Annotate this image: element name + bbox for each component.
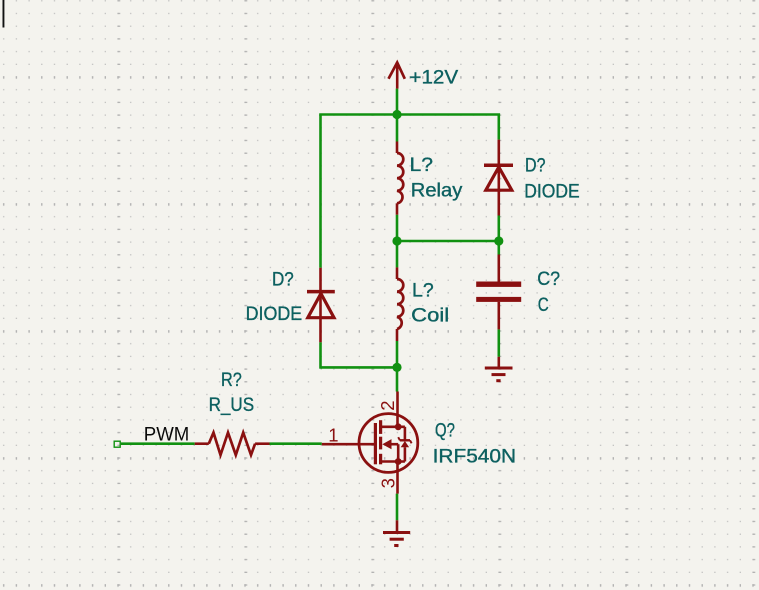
svg-text:C?: C? [537,269,560,290]
svg-text:Q?: Q? [435,420,455,441]
svg-text:D?: D? [272,270,294,291]
svg-text:Coil: Coil [411,305,449,326]
svg-text:Relay: Relay [411,181,463,202]
svg-text:2: 2 [377,401,398,411]
svg-text:L?: L? [412,281,434,302]
svg-text:+12V: +12V [409,67,458,88]
svg-text:R_US: R_US [209,395,255,416]
svg-text:IRF540N: IRF540N [433,446,516,467]
svg-text:1: 1 [328,425,338,446]
svg-text:L?: L? [410,155,434,176]
svg-text:PWM: PWM [144,424,190,446]
svg-text:3: 3 [378,478,399,488]
svg-text:D?: D? [525,156,546,177]
svg-text:DIODE: DIODE [246,304,303,325]
svg-text:DIODE: DIODE [524,181,580,202]
svg-text:C: C [538,295,549,316]
svg-text:R?: R? [221,370,242,391]
